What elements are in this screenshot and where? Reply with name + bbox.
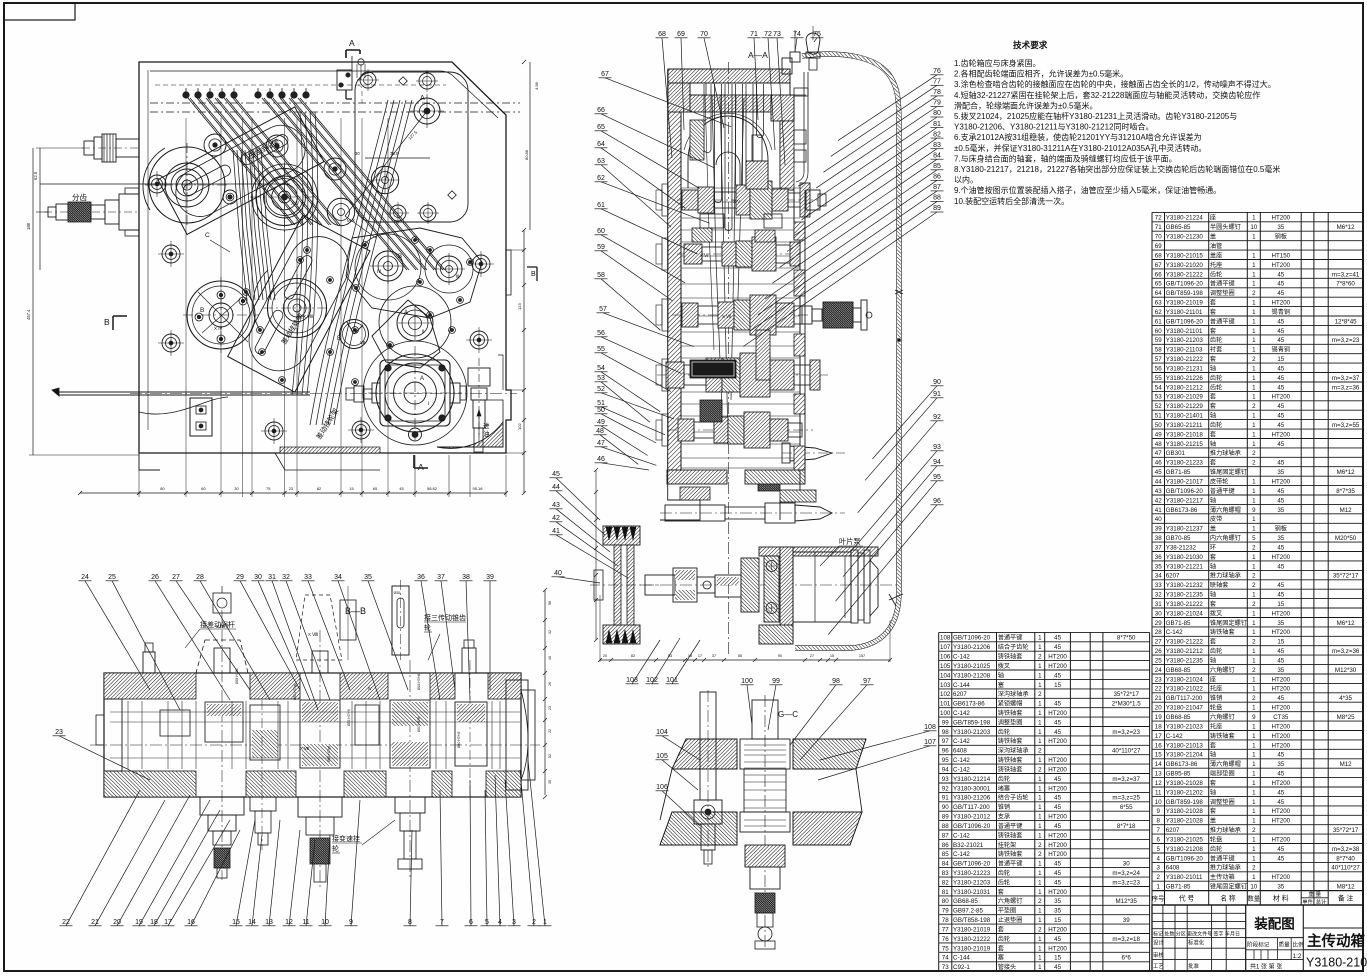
svg-text:2: 2 [1252,865,1256,872]
svg-text:94: 94 [933,459,941,466]
II gear circle [379,286,451,358]
left vertical dim column mid view [594,468,598,642]
svg-text:装配图: 装配图 [1253,916,1295,932]
svg-text:锥销: 锥销 [998,803,1010,811]
svg-text:标记 处数 分区 更改文件号 签字 年月日: 标记 处数 分区 更改文件号 签字 年月日 [1153,930,1240,937]
svg-text:85: 85 [933,163,941,170]
svg-text:123: 123 [517,303,522,310]
svg-text:M8*12: M8*12 [1337,884,1355,891]
svg-text:±0.5毫米，并保证Y3180-31211A在Y3180-2: ±0.5毫米，并保证Y3180-31211A在Y3180-21012A035A孔… [954,143,1206,153]
svg-text:座: 座 [1210,675,1216,683]
shaft XVII cluster with adjuster knob [672,295,872,335]
bottom dimension row [78,486,508,495]
svg-text:2: 2 [1252,460,1256,467]
svg-text:45: 45 [1277,460,1284,467]
svg-text:轴: 轴 [1210,412,1216,420]
svg-text:45: 45 [1277,318,1284,325]
svg-text:HT200: HT200 [1272,554,1291,561]
svg-text:34: 34 [1155,573,1162,580]
column x262 below [250,700,276,850]
svg-text:Y3180-21025: Y3180-21025 [1166,837,1204,844]
svg-text:2: 2 [1252,695,1256,702]
svg-text:30: 30 [254,574,262,581]
svg-text:1: 1 [1038,757,1042,764]
svg-text:45: 45 [1054,635,1061,642]
callouts pump bottom 101-103 [626,640,661,684]
svg-text:40*110*27: 40*110*27 [1112,748,1141,755]
svg-text:Y3180-21208: Y3180-21208 [1166,846,1204,853]
svg-text:轴: 轴 [1210,751,1216,759]
shaft XV cluster [677,181,826,219]
gear circle top-right [371,166,399,194]
svg-text:1: 1 [1252,366,1256,373]
svg-text:拨叉: 拨叉 [1210,609,1222,617]
svg-text:80: 80 [933,110,941,117]
svg-text:推力球轴承: 推力球轴承 [1210,449,1241,457]
svg-text:Y3180-21215: Y3180-21215 [1166,441,1204,448]
callouts top of middle view 68-75 [656,31,673,158]
dark keyed blocks [690,330,780,491]
svg-text:45: 45 [399,486,404,491]
svg-text:G—C: G—C [778,710,798,719]
svg-text:普通平键: 普通平键 [1210,280,1235,288]
svg-text:1: 1 [1252,874,1256,881]
svg-text:托座: 托座 [1210,722,1222,730]
svg-text:18: 18 [150,919,158,926]
svg-text:1: 1 [1252,300,1256,307]
svg-text:45: 45 [1277,328,1284,335]
svg-text:Ø40 H7/n5: Ø40 H7/n5 [457,731,461,748]
svg-text:45: 45 [1054,804,1061,811]
svg-text:5: 5 [1252,535,1256,542]
svg-text:Ⅷ: Ⅷ [360,340,366,345]
svg-text:1: 1 [1252,705,1256,712]
svg-text:衬套: 衬套 [1210,346,1222,354]
svg-text:阶段标记: 阶段标记 [1247,941,1270,949]
svg-text:铸铁轴套: 铸铁轴套 [998,766,1023,774]
svg-text:35*72*17: 35*72*17 [1113,691,1139,698]
svg-text:铸铁轴套: 铸铁轴套 [998,756,1023,764]
svg-text:HT200: HT200 [1048,785,1067,792]
svg-text:96: 96 [933,498,941,505]
svg-text:45: 45 [1277,366,1284,373]
main output flange I [363,341,467,445]
svg-text:盖: 盖 [1210,817,1216,825]
svg-text:齿轮: 齿轮 [998,935,1010,943]
svg-text:52: 52 [597,386,605,393]
svg-text:套: 套 [1210,600,1216,608]
svg-text:75: 75 [813,31,821,38]
callouts right lower 90-96 [873,379,944,459]
svg-text:C-142: C-142 [953,654,970,661]
svg-text:Y3180-21226: Y3180-21226 [1166,375,1204,382]
svg-text:40*110*27: 40*110*27 [1331,865,1360,872]
callouts B-B bottom 1-22 [60,790,141,926]
svg-text:1.齿轮箱应与床身紧固。: 1.齿轮箱应与床身紧固。 [954,58,1041,68]
svg-text:6408: 6408 [1166,865,1180,872]
svg-text:62: 62 [1155,309,1162,316]
svg-text:102: 102 [646,677,658,684]
svg-text:1: 1 [1252,488,1256,495]
svg-text:103: 103 [626,677,638,684]
svg-text:C-142: C-142 [1166,629,1183,636]
svg-text:比例: 比例 [1293,941,1305,949]
svg-text:6*55: 6*55 [1120,804,1133,811]
svg-text:1: 1 [1038,955,1042,962]
svg-text:53: 53 [597,375,605,382]
svg-text:轴: 轴 [1210,562,1216,570]
main front view housing outline [139,62,511,453]
svg-text:91: 91 [942,795,949,802]
svg-text:X V: X V [733,199,740,204]
svg-text:套: 套 [1210,355,1216,363]
svg-text:GB/T1096-20: GB/T1096-20 [1166,488,1204,495]
svg-text:A: A [404,310,408,316]
clock dial circle VIII [337,320,369,349]
svg-text:36: 36 [1155,554,1162,561]
svg-text:1: 1 [1038,870,1042,877]
svg-text:1: 1 [1038,908,1042,915]
IV label and details [300,686,379,751]
XVIII gear circle [253,270,331,342]
svg-text:98: 98 [832,678,840,685]
svg-text:钢板: 钢板 [1275,525,1287,533]
IV gear circle [355,234,421,300]
svg-text:37: 37 [712,654,716,658]
svg-text:45: 45 [1277,337,1284,344]
svg-text:m=3,z=41: m=3,z=41 [1332,271,1360,278]
svg-text:22: 22 [1155,686,1162,693]
svg-text:86: 86 [942,842,949,849]
svg-text:68: 68 [658,31,666,38]
svg-text:23: 23 [289,486,294,491]
svg-text:90: 90 [942,804,949,811]
svg-text:备 注: 备 注 [1338,893,1354,902]
svg-text:61: 61 [1155,318,1162,325]
svg-text:9: 9 [1252,714,1256,721]
svg-text:审核: 审核 [1153,951,1164,959]
svg-text:4.98: 4.98 [534,81,539,90]
svg-text:29: 29 [1155,620,1162,627]
svg-text:HT200: HT200 [1272,723,1291,730]
svg-text:88: 88 [942,823,949,830]
svg-text:65: 65 [597,124,605,131]
svg-text:26: 26 [1155,648,1162,655]
svg-text:46: 46 [1155,460,1162,467]
svg-text:67: 67 [1155,262,1162,269]
svg-text:GB68-85: GB68-85 [1166,667,1191,674]
svg-text:5: 5 [1156,846,1160,853]
svg-text:8*7*18: 8*7*18 [1117,823,1136,830]
svg-text:48: 48 [596,428,604,435]
B-B top hatched band [104,673,521,699]
svg-text:4: 4 [1156,855,1160,862]
svg-text:Y3180-21212: Y3180-21212 [1166,648,1204,655]
svg-text:9: 9 [1252,507,1256,514]
svg-text:1: 1 [1252,780,1256,787]
svg-text:塞: 塞 [998,954,1004,962]
svg-text:普通平键: 普通平键 [998,822,1023,830]
svg-text:64: 64 [597,141,605,148]
svg-text:1: 1 [1038,945,1042,952]
svg-text:套: 套 [1210,779,1216,787]
svg-text:45: 45 [1054,823,1061,830]
svg-text:盖: 盖 [1210,233,1216,241]
svg-text:紧锁螺帽: 紧锁螺帽 [998,700,1023,708]
svg-text:85: 85 [942,851,949,858]
svg-text:67: 67 [601,71,609,78]
interior shelf lines [681,188,800,468]
svg-text:Y3180-21203: Y3180-21203 [1166,337,1204,344]
svg-text:82: 82 [933,131,941,138]
svg-text:套: 套 [1210,741,1216,749]
svg-text:轴: 轴 [1210,496,1216,504]
svg-text:薄六角螺帽: 薄六角螺帽 [1210,506,1241,514]
svg-text:457.4: 457.4 [26,309,31,320]
svg-text:2.各相配齿轮端面应相齐，允许误差为±0.5毫米。: 2.各相配齿轮端面应相齐，允许误差为±0.5毫米。 [954,69,1128,79]
svg-text:77: 77 [942,926,949,933]
svg-text:GB95-85: GB95-85 [1166,771,1191,778]
right side step details [498,250,511,390]
shift rail rod bundle 1 [188,98,340,225]
B-B left end cap [96,699,122,771]
svg-text:2: 2 [1038,654,1042,661]
svg-text:70: 70 [700,31,708,38]
svg-text:63: 63 [1155,300,1162,307]
svg-text:45: 45 [1054,701,1061,708]
svg-text:20: 20 [603,654,607,658]
svg-text:43: 43 [1155,488,1162,495]
svg-text:联轴套: 联轴套 [1210,581,1229,589]
svg-text:1: 1 [1252,676,1256,683]
svg-text:Y3180-21237: Y3180-21237 [1166,526,1204,533]
svg-text:质量: 质量 [1279,941,1291,949]
svg-text:盖: 盖 [1210,525,1216,533]
svg-text:2: 2 [1252,356,1256,363]
svg-text:GB/T859-198: GB/T859-198 [1166,290,1204,297]
svg-text:B: B [531,271,536,278]
svg-text:90: 90 [933,379,941,386]
svg-text:75: 75 [266,486,271,491]
small gauge box top [337,70,352,99]
svg-text:皮带: 皮带 [1210,515,1222,523]
vane pump label [820,537,863,566]
svg-text:45: 45 [1054,672,1061,679]
svg-text:结合子齿轮: 结合子齿轮 [998,643,1029,651]
right exit cone shaft [782,443,845,463]
svg-text:Y3180-21023: Y3180-21023 [1166,723,1204,730]
svg-text:1: 1 [1252,441,1256,448]
svg-text:轮: 轮 [332,844,339,853]
svg-text:1: 1 [1156,884,1160,891]
svg-text:39: 39 [486,574,494,581]
svg-text:19: 19 [1155,714,1162,721]
svg-text:23: 23 [548,706,552,710]
svg-text:拨叉: 拨叉 [998,662,1010,670]
dome cavity [684,113,772,192]
callouts G-C sides [656,729,701,760]
svg-text:82: 82 [631,654,635,658]
svg-text:Y3180-21206: Y3180-21206 [953,644,991,651]
svg-text:100: 100 [940,710,951,717]
svg-text:Y3180-21047: Y3180-21047 [1166,705,1204,712]
svg-text:M8*25: M8*25 [1337,714,1355,721]
svg-text:Y3180-21022: Y3180-21022 [1166,686,1204,693]
svg-text:Y3180-21101: Y3180-21101 [1166,309,1203,316]
svg-text:72: 72 [764,31,772,38]
svg-text:71: 71 [750,31,758,38]
svg-text:Ø18 H7/n6: Ø18 H7/n6 [417,673,421,690]
svg-text:m=3,z=36: m=3,z=36 [1332,384,1360,391]
svg-text:6.支承21012A按31组稳装，使齿轮21201YY与31: 6.支承21012A按31组稳装，使齿轮21201YY与31210A啮合允许误差… [954,132,1202,142]
svg-text:59: 59 [1155,337,1162,344]
svg-text:HT200: HT200 [1272,874,1291,881]
svg-text:共1 张 第 张: 共1 张 第 张 [1250,963,1282,971]
svg-text:1: 1 [1038,635,1042,642]
svg-text:六角螺钉: 六角螺钉 [1210,713,1235,721]
svg-text:X Ⅶ: X Ⅶ [722,314,731,319]
pump bottom dimension line [598,595,892,662]
svg-text:56: 56 [597,330,605,337]
svg-text:油: 油 [483,429,490,438]
svg-text:102: 102 [517,423,522,430]
svg-text:4*35: 4*35 [1339,695,1352,702]
svg-text:1: 1 [1252,384,1256,391]
svg-text:1: 1 [1252,846,1256,853]
svg-text:HT200: HT200 [1272,629,1291,636]
svg-text:45: 45 [1277,648,1284,655]
XIV wheel circle [183,277,259,353]
svg-text:HT200: HT200 [1272,300,1291,307]
svg-text:2: 2 [1038,926,1042,933]
svg-text:HT200: HT200 [1272,479,1291,486]
svg-text:45: 45 [1277,771,1284,778]
svg-text:托座: 托座 [1210,261,1222,269]
svg-text:2: 2 [1252,290,1256,297]
svg-text:62.5: 62.5 [33,171,38,180]
svg-text:95.18: 95.18 [472,486,483,491]
svg-text:105: 105 [656,753,668,760]
svg-text:GB6173-86: GB6173-86 [1166,761,1198,768]
svg-text:HT200: HT200 [1048,945,1067,952]
callouts B-B top 24-39 [79,574,151,690]
left dimension line [26,148,139,455]
svg-text:101: 101 [940,701,951,708]
svg-text:HT200: HT200 [1272,705,1291,712]
svg-text:套: 套 [1210,807,1216,815]
svg-text:套: 套 [1210,430,1216,438]
svg-text:普通平键: 普通平键 [1210,487,1235,495]
svg-text:Y3180-21230: Y3180-21230 [1166,234,1204,241]
svg-text:1: 1 [1252,563,1256,570]
svg-text:HT150: HT150 [1272,252,1291,259]
B-B top bolt left [143,643,155,673]
small crosshair bolts scattered [144,171,494,444]
svg-text:HT200: HT200 [1272,837,1291,844]
small filled bolts scattered [243,237,474,386]
svg-text:44: 44 [552,484,560,491]
svg-text:51: 51 [597,400,605,407]
svg-text:45: 45 [1054,861,1061,868]
svg-text:m=3,z=37: m=3,z=37 [1112,776,1140,783]
svg-text:1: 1 [1038,719,1042,726]
svg-text:塞: 塞 [998,681,1004,689]
bolt row along top of housing [183,88,309,98]
svg-text:1: 1 [1038,861,1042,868]
svg-text:45: 45 [1277,271,1284,278]
svg-text:推力球轴承: 推力球轴承 [1210,572,1241,580]
svg-text:89: 89 [942,814,949,821]
svg-text:轮盘: 轮盘 [1210,836,1222,844]
svg-text:45: 45 [1277,855,1284,862]
svg-text:C-144: C-144 [953,955,970,962]
svg-text:HT200: HT200 [1048,832,1067,839]
svg-text:套: 套 [998,944,1004,952]
svg-text:40: 40 [1155,516,1162,523]
svg-text:9.个油管按图示位置装配插入搭子，油管应至少插入5毫米，保证: 9.个油管按图示位置装配插入搭子，油管应至少插入5毫米，保证油管畅通。 [954,185,1221,195]
svg-text:A—A: A—A [748,50,768,60]
G-C central spindle column [740,695,790,950]
svg-text:20: 20 [1155,705,1162,712]
svg-text:18: 18 [1155,723,1162,730]
svg-text:45: 45 [1277,375,1284,382]
svg-text:1: 1 [1252,837,1256,844]
C label [205,232,230,252]
svg-text:Y3180-21028: Y3180-21028 [1166,808,1204,815]
svg-text:1: 1 [1252,215,1256,222]
left wall bearing bosses [656,184,668,446]
svg-text:1: 1 [1038,672,1042,679]
svg-text:92: 92 [942,785,949,792]
svg-text:Y3180-21030: Y3180-21030 [1166,554,1204,561]
svg-text:81: 81 [933,121,941,128]
svg-text:53: 53 [1155,394,1162,401]
svg-text:49: 49 [597,419,605,426]
svg-text:GB/T858-198: GB/T858-198 [953,917,991,924]
svg-text:GB65-85: GB65-85 [1166,224,1191,231]
svg-text:B32-21021: B32-21021 [953,842,984,849]
svg-text:套: 套 [1210,402,1216,410]
svg-text:HT200: HT200 [1048,710,1067,717]
svg-text:74: 74 [942,955,949,962]
svg-text:m=3,z=23: m=3,z=23 [1332,337,1360,344]
svg-text:45: 45 [1054,644,1061,651]
svg-text:Y3180-21235: Y3180-21235 [1166,658,1204,665]
svg-text:1: 1 [1038,701,1042,708]
svg-text:45: 45 [1277,544,1284,551]
svg-text:Y3180-21235: Y3180-21235 [1166,592,1204,599]
svg-text:22: 22 [548,729,552,733]
svg-text:C-142: C-142 [953,710,970,717]
svg-text:99: 99 [942,719,949,726]
svg-text:Y3180-21031: Y3180-21031 [953,889,991,896]
middle view bottom band [667,470,805,484]
svg-text:Y3180-21221: Y3180-21221 [1166,563,1204,570]
middle view right upper wall [780,69,808,470]
svg-text:45: 45 [1277,799,1284,806]
svg-text:89: 89 [933,205,941,212]
svg-text:轴: 轴 [1210,440,1216,448]
svg-text:79: 79 [933,100,941,107]
top-left corner box [4,3,75,20]
svg-text:24: 24 [81,574,89,581]
svg-text:1: 1 [1252,723,1256,730]
svg-text:Y3180-21019: Y3180-21019 [953,945,991,952]
svg-text:98: 98 [942,729,949,736]
svg-text:45: 45 [1054,795,1061,802]
svg-text:Y3180-21202: Y3180-21202 [1166,789,1204,796]
svg-text:65: 65 [1155,281,1162,288]
